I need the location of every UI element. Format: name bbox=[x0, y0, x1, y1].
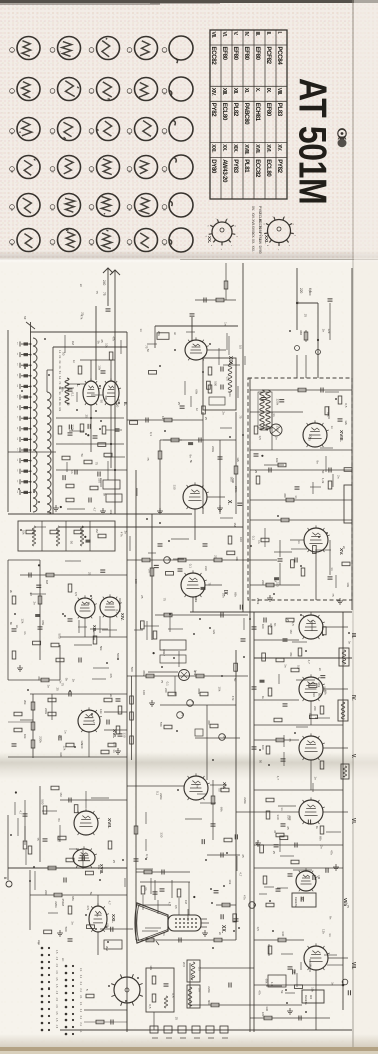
svg-text:16: 16 bbox=[10, 170, 14, 173]
node B bbox=[164, 557, 171, 564]
wire bus v96 bbox=[95, 306, 97, 380]
components bm bbox=[134, 826, 223, 943]
svg-text:XII.: XII. bbox=[232, 88, 238, 95]
tube socket diagram 21 bbox=[10, 194, 40, 217]
svg-text:29: 29 bbox=[127, 243, 131, 246]
tube socket diagram 28 bbox=[89, 229, 119, 252]
svg-text:1k: 1k bbox=[315, 826, 319, 830]
resistor bbox=[78, 366, 82, 374]
wire bus h658 bbox=[254, 657, 352, 659]
wire bbox=[250, 389, 352, 391]
svg-text:330: 330 bbox=[59, 752, 63, 757]
wire bbox=[110, 405, 112, 468]
svg-text:0,5: 0,5 bbox=[256, 927, 260, 932]
svg-text:R: R bbox=[181, 713, 185, 716]
wire bbox=[207, 496, 225, 498]
components mid bbox=[171, 438, 179, 442]
svg-text:3: 3 bbox=[277, 249, 279, 251]
svg-text:3.k: 3.k bbox=[58, 360, 61, 364]
svg-text:1.k: 1.k bbox=[58, 350, 61, 354]
svg-text:10k: 10k bbox=[22, 530, 26, 535]
svg-text:2n: 2n bbox=[58, 735, 62, 739]
svg-text:10k: 10k bbox=[104, 343, 108, 348]
tube complement table bbox=[210, 30, 287, 199]
svg-text:220k: 220k bbox=[256, 598, 260, 605]
svg-text:4,5: 4,5 bbox=[55, 964, 58, 968]
tube socket diagram 13 bbox=[89, 118, 119, 141]
wire bbox=[24, 800, 26, 840]
wire bbox=[271, 412, 273, 450]
svg-text:220k: 220k bbox=[70, 424, 74, 431]
IF labels bbox=[261, 624, 265, 629]
svg-text:47k: 47k bbox=[112, 336, 116, 341]
svg-text:4,5: 4,5 bbox=[55, 1011, 58, 1015]
tube socket diagram 4 bbox=[127, 37, 157, 60]
svg-text:26: 26 bbox=[10, 243, 14, 246]
components bm2 bbox=[222, 903, 230, 907]
tube socket diagram 17 bbox=[50, 156, 80, 179]
svg-text:0,1: 0,1 bbox=[115, 609, 119, 614]
wire bbox=[90, 405, 92, 452]
voltage chart text bbox=[55, 950, 82, 1033]
svg-text:3: 3 bbox=[220, 249, 222, 251]
circle B2 bbox=[342, 979, 348, 985]
label VI/a bbox=[343, 898, 348, 907]
wire bbox=[60, 636, 127, 638]
labels bbox=[61, 902, 65, 907]
tube socket diagram 22 bbox=[50, 194, 80, 217]
svg-text:500: 500 bbox=[64, 927, 68, 932]
svg-text:10: 10 bbox=[16, 342, 18, 345]
tube II PCF82 bbox=[103, 378, 121, 405]
label III. bbox=[350, 633, 356, 639]
components det bbox=[249, 860, 299, 908]
svg-text:21: 21 bbox=[16, 459, 18, 462]
cluster v131 parts bbox=[104, 698, 127, 747]
wire bbox=[30, 894, 127, 896]
svg-text:0,5: 0,5 bbox=[239, 345, 243, 350]
svg-text:12k: 12k bbox=[20, 619, 24, 624]
svg-text:Upp: Upp bbox=[37, 940, 41, 945]
resistor ladder v131 bbox=[130, 676, 134, 760]
svg-text:6: 6 bbox=[207, 225, 209, 227]
svg-text:12k: 12k bbox=[58, 407, 61, 412]
wire bbox=[254, 699, 299, 701]
svg-text:2,1: 2,1 bbox=[79, 1002, 82, 1006]
wire bbox=[127, 675, 248, 677]
wire bbox=[250, 1017, 330, 1019]
svg-text:1n: 1n bbox=[330, 567, 334, 571]
svg-text:4,7: 4,7 bbox=[92, 719, 96, 724]
svg-text:P: P bbox=[191, 701, 195, 704]
svg-text:10k: 10k bbox=[58, 397, 61, 402]
svg-text:47k: 47k bbox=[109, 673, 113, 678]
svg-text:220k: 220k bbox=[275, 399, 279, 406]
label 220V bbox=[299, 288, 303, 294]
svg-text:0,1: 0,1 bbox=[194, 596, 198, 601]
svg-text:0,1: 0,1 bbox=[156, 791, 160, 796]
resistor bbox=[211, 1003, 219, 1007]
svg-text:0,1: 0,1 bbox=[70, 392, 74, 397]
svg-text:47k: 47k bbox=[231, 696, 235, 701]
svg-text:75: 75 bbox=[288, 738, 292, 742]
capacitor bbox=[328, 299, 333, 301]
svg-text:2: 2 bbox=[288, 245, 290, 247]
components in AGC box bbox=[26, 526, 106, 546]
svg-text:0,5: 0,5 bbox=[326, 412, 330, 417]
wire bus v343 bbox=[342, 612, 344, 1010]
svg-text:III.: III. bbox=[350, 633, 356, 639]
svg-text:10k: 10k bbox=[235, 556, 239, 561]
svg-text:10k: 10k bbox=[346, 582, 350, 587]
svg-text:2n: 2n bbox=[124, 531, 128, 535]
svg-text:1M: 1M bbox=[309, 963, 313, 968]
wire bus h868 bbox=[8, 867, 127, 869]
svg-text:75: 75 bbox=[331, 593, 335, 597]
svg-text:4,7: 4,7 bbox=[307, 660, 311, 665]
wire bbox=[160, 439, 236, 441]
svg-text:50: 50 bbox=[233, 678, 237, 682]
svg-text:600: 600 bbox=[207, 1000, 211, 1005]
svg-text:100: 100 bbox=[261, 624, 265, 629]
svg-text:II.: II. bbox=[265, 32, 271, 36]
svg-text:5: 5 bbox=[205, 236, 207, 238]
tube VI/a bbox=[296, 868, 318, 891]
svg-text:XX.: XX. bbox=[251, 239, 255, 244]
wire bbox=[250, 449, 352, 451]
label XVIII bbox=[338, 430, 344, 442]
label V. bbox=[350, 754, 356, 759]
svg-text:13: 13 bbox=[89, 132, 93, 135]
svg-text:2,1: 2,1 bbox=[79, 1029, 82, 1033]
svg-text:2n: 2n bbox=[32, 602, 36, 606]
wire bbox=[39, 560, 41, 660]
wire bbox=[310, 701, 312, 725]
wire bbox=[315, 552, 317, 600]
wire bbox=[188, 882, 190, 915]
svg-text:XVII.: XVII. bbox=[106, 818, 112, 828]
wire bbox=[323, 626, 348, 628]
svg-text:100: 100 bbox=[261, 745, 265, 750]
svg-text:330: 330 bbox=[204, 566, 208, 571]
wire bbox=[32, 694, 34, 758]
wire bbox=[154, 326, 156, 348]
svg-text:0,1: 0,1 bbox=[145, 854, 149, 859]
svg-text:PCC84: PCC84 bbox=[276, 47, 283, 66]
label IV. bbox=[350, 695, 356, 701]
resistor 5ohm bbox=[86, 994, 94, 998]
svg-text:47k: 47k bbox=[80, 315, 84, 320]
wire bbox=[100, 928, 133, 930]
svg-text:1k: 1k bbox=[261, 696, 265, 700]
svg-text:50: 50 bbox=[70, 541, 74, 545]
svg-text:1n: 1n bbox=[314, 777, 318, 781]
svg-text:10: 10 bbox=[162, 92, 166, 95]
svg-text:ECC82: ECC82 bbox=[210, 47, 217, 66]
svg-text:8n: 8n bbox=[9, 622, 13, 625]
small circle conn bbox=[179, 670, 190, 681]
svg-text:1M: 1M bbox=[61, 902, 65, 907]
label I bbox=[76, 384, 81, 387]
svg-text:220k: 220k bbox=[39, 736, 43, 743]
svg-text:10k: 10k bbox=[311, 987, 315, 992]
svg-text:25: 25 bbox=[84, 415, 88, 419]
labels CRT bbox=[174, 905, 178, 909]
svg-text:11: 11 bbox=[16, 353, 18, 356]
svg-text:2,1: 2,1 bbox=[79, 968, 82, 972]
wire bbox=[39, 786, 41, 862]
svg-text:68k: 68k bbox=[265, 979, 269, 984]
svg-text:11: 11 bbox=[10, 132, 14, 135]
components IF2 bbox=[252, 668, 324, 722]
svg-text:10k: 10k bbox=[228, 879, 232, 884]
wire bbox=[30, 693, 127, 695]
tube XVIII ECL80 bbox=[73, 846, 97, 867]
svg-text:75: 75 bbox=[102, 292, 106, 296]
label VII bbox=[350, 962, 356, 970]
svg-text:75: 75 bbox=[163, 598, 167, 602]
svg-text:0,5: 0,5 bbox=[74, 592, 78, 596]
components IF3 bbox=[252, 738, 324, 769]
svg-text:EF80: EF80 bbox=[221, 47, 228, 61]
svg-text:12: 12 bbox=[16, 363, 18, 366]
cluster under dots bbox=[84, 1020, 127, 1025]
misc short wires bbox=[15, 332, 343, 993]
tube socket diagram 14 bbox=[127, 118, 157, 141]
svg-text:10k: 10k bbox=[217, 687, 221, 692]
components LOP bbox=[256, 463, 332, 522]
LOP extra parts bbox=[250, 388, 343, 577]
svg-text:500: 500 bbox=[231, 478, 235, 483]
tube XIII ECL80 bbox=[75, 595, 97, 618]
svg-text:220: 220 bbox=[164, 688, 168, 693]
svg-text:DY80: DY80 bbox=[210, 159, 217, 174]
wire bus h515 bbox=[8, 513, 192, 515]
svg-text:12k: 12k bbox=[327, 329, 331, 334]
svg-text:18: 18 bbox=[16, 427, 18, 430]
svg-text:8n: 8n bbox=[188, 455, 192, 459]
wire bbox=[219, 440, 221, 514]
socket pinout XX. bbox=[205, 218, 238, 250]
svg-text:AW: AW bbox=[258, 239, 262, 244]
tube XIV PY82 bbox=[100, 594, 122, 617]
resistors bbox=[196, 674, 204, 678]
wire bbox=[84, 618, 86, 637]
wire bbox=[51, 694, 53, 720]
channel selector ladder bbox=[16, 330, 32, 512]
svg-text:75: 75 bbox=[160, 680, 164, 684]
svg-text:10k: 10k bbox=[221, 593, 225, 598]
svg-text:12k: 12k bbox=[212, 629, 216, 634]
svg-text:EF80: EF80 bbox=[243, 47, 250, 61]
svg-text:8n: 8n bbox=[196, 784, 200, 788]
svg-text:5k: 5k bbox=[102, 493, 106, 497]
svg-text:XIX.: XIX. bbox=[251, 232, 255, 238]
svg-text:XVIII.: XVIII. bbox=[243, 144, 249, 155]
svg-text:13: 13 bbox=[16, 374, 18, 377]
svg-text:5k: 5k bbox=[292, 970, 296, 974]
svg-text:330: 330 bbox=[312, 692, 316, 697]
svg-text:500: 500 bbox=[214, 381, 218, 386]
wire bbox=[194, 509, 196, 540]
svg-text:3: 3 bbox=[89, 51, 93, 53]
svg-text:47k: 47k bbox=[120, 532, 124, 537]
IF can T3 bbox=[341, 764, 349, 779]
wire bbox=[8, 679, 60, 681]
svg-text:16: 16 bbox=[16, 406, 18, 409]
svg-text:570: 570 bbox=[159, 722, 163, 727]
svg-text:2: 2 bbox=[50, 51, 54, 53]
wire bbox=[189, 963, 191, 1008]
coil bbox=[65, 378, 69, 404]
wire bbox=[323, 688, 348, 690]
cluster sound box area bbox=[195, 263, 236, 303]
label XVIII2 bbox=[99, 864, 104, 874]
svg-text:330: 330 bbox=[160, 832, 164, 837]
svg-text:100: 100 bbox=[142, 690, 146, 695]
svg-text:21: 21 bbox=[10, 208, 14, 211]
components right of XVI bbox=[59, 699, 121, 754]
label XV bbox=[338, 548, 344, 555]
svg-text:4: 4 bbox=[127, 51, 131, 53]
svg-text:5k: 5k bbox=[89, 892, 93, 896]
svg-text:I.: I. bbox=[76, 384, 81, 387]
tube socket diagram 24 bbox=[127, 194, 157, 217]
components XVII bbox=[23, 786, 112, 862]
vertical text channel names bbox=[58, 350, 61, 354]
svg-text:24: 24 bbox=[16, 490, 18, 493]
tube socket diagram 20 bbox=[162, 155, 193, 179]
svg-text:V.: V. bbox=[232, 32, 238, 36]
bottom tiny marks bbox=[152, 1037, 228, 1039]
svg-text:11k: 11k bbox=[58, 402, 61, 406]
svg-text:1M: 1M bbox=[289, 629, 293, 634]
svg-text:0,5: 0,5 bbox=[225, 377, 229, 382]
svg-text:10k: 10k bbox=[228, 392, 232, 397]
svg-text:FEKETE: FEKETE bbox=[304, 995, 307, 1005]
tube IV. EF80 bbox=[299, 674, 325, 701]
coil scallop 1 bbox=[33, 338, 37, 512]
svg-text:25: 25 bbox=[286, 619, 290, 623]
svg-text:1M: 1M bbox=[71, 341, 75, 346]
svg-text:1k: 1k bbox=[161, 416, 165, 420]
box FEKETE 60 bbox=[292, 893, 316, 907]
svg-text:PY82: PY82 bbox=[210, 103, 217, 117]
svg-text:2,1: 2,1 bbox=[79, 988, 82, 992]
tube socket diagram 9 bbox=[127, 78, 157, 101]
tube socket diagram 19 bbox=[127, 156, 157, 179]
tube XV PL82 bbox=[184, 773, 210, 800]
labels bbox=[149, 432, 153, 436]
ground symbols bbox=[17, 505, 343, 1014]
svg-text:0,5: 0,5 bbox=[269, 624, 273, 629]
svg-text:9: 9 bbox=[292, 224, 294, 226]
svg-text:23: 23 bbox=[16, 480, 18, 483]
svg-text:8n: 8n bbox=[146, 349, 150, 353]
svg-text:DY80: DY80 bbox=[258, 246, 262, 254]
svg-text:2.k: 2.k bbox=[58, 355, 61, 359]
wire bus h612 bbox=[190, 611, 352, 613]
component value labels bbox=[15, 284, 352, 1021]
label XIX bbox=[227, 356, 233, 366]
svg-text:50: 50 bbox=[217, 788, 221, 792]
components under IX bbox=[153, 613, 223, 664]
wire bbox=[127, 785, 184, 787]
svg-text:0,1: 0,1 bbox=[149, 432, 153, 436]
coil scallop 2 bbox=[47, 392, 51, 514]
svg-text:47k: 47k bbox=[289, 652, 293, 657]
svg-text:470k: 470k bbox=[142, 670, 146, 677]
svg-text:2n: 2n bbox=[342, 546, 346, 550]
wire bus v115 bbox=[114, 300, 116, 514]
svg-text:4,7: 4,7 bbox=[239, 872, 243, 877]
tube III. EF80 bbox=[299, 612, 325, 639]
wire bbox=[155, 325, 238, 327]
svg-text:4,5: 4,5 bbox=[55, 970, 58, 974]
svg-text:220k: 220k bbox=[54, 901, 58, 908]
svg-text:500: 500 bbox=[308, 290, 312, 295]
label XX bbox=[220, 925, 226, 934]
labels mid bbox=[164, 688, 168, 693]
svg-text:0,5: 0,5 bbox=[174, 905, 178, 909]
svg-text:470: 470 bbox=[283, 493, 287, 498]
svg-text:47: 47 bbox=[273, 830, 277, 834]
components XXI bbox=[54, 893, 122, 951]
wire bbox=[323, 747, 348, 749]
svg-text:3n: 3n bbox=[193, 670, 197, 674]
svg-text:2n: 2n bbox=[321, 329, 325, 333]
components left col bbox=[9, 590, 17, 659]
tube socket diagram 26 bbox=[10, 229, 40, 252]
wire bbox=[205, 584, 222, 586]
label VI. bbox=[350, 818, 356, 825]
svg-text:500: 500 bbox=[58, 634, 62, 639]
wire bbox=[192, 597, 194, 612]
svg-text:2,1: 2,1 bbox=[79, 975, 82, 979]
svg-text:50: 50 bbox=[259, 760, 263, 764]
svg-text:1n: 1n bbox=[70, 470, 74, 474]
svg-text:3n: 3n bbox=[284, 664, 288, 668]
svg-text:25: 25 bbox=[140, 595, 144, 599]
cluster mid column bbox=[207, 780, 240, 858]
svg-text:XI.: XI. bbox=[243, 88, 249, 94]
svg-text:XIV.: XIV. bbox=[120, 613, 125, 621]
svg-text:68k: 68k bbox=[41, 620, 45, 625]
wire bbox=[56, 469, 127, 471]
svg-text:19: 19 bbox=[16, 437, 18, 440]
svg-text:14: 14 bbox=[127, 132, 131, 135]
label XVII bbox=[106, 818, 112, 828]
tube socket diagram 23 bbox=[89, 194, 119, 217]
svg-text:500: 500 bbox=[130, 667, 134, 672]
line output transformer bbox=[258, 390, 272, 430]
svg-text:10k: 10k bbox=[23, 734, 27, 739]
box FEKETE 400 bbox=[302, 990, 324, 1003]
svg-text:2n: 2n bbox=[320, 845, 324, 849]
tube XV PY82 damper bbox=[304, 525, 330, 552]
svg-text:2n: 2n bbox=[197, 988, 201, 992]
svg-text:XVI.: XVI. bbox=[251, 213, 255, 219]
tube socket diagram 5 bbox=[162, 36, 193, 63]
wire bbox=[305, 330, 307, 342]
svg-text:400: 400 bbox=[309, 995, 312, 1000]
svg-text:14: 14 bbox=[16, 384, 18, 387]
resistor bbox=[164, 418, 172, 422]
svg-text:100: 100 bbox=[239, 537, 243, 542]
wire bbox=[88, 732, 90, 757]
CRT XX AW43-20 bbox=[135, 903, 209, 945]
svg-text:EF80: EF80 bbox=[254, 47, 261, 61]
